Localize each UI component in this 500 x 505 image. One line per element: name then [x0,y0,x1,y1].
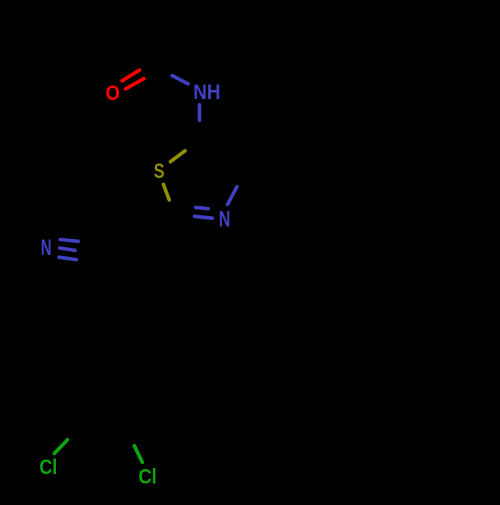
bond C-Cl right (Cl half, green) [134,446,142,463]
bond S-C5 thiazole (S half, olive) [171,151,186,162]
bond C-N amide (N half, blue) [172,76,188,84]
bond C=O double bond upper line (O half, red) [122,70,139,81]
bond C=O double bond main line (O half, red) [126,79,144,89]
svg-text:NH: NH [193,81,220,104]
bond N-C5 thiazole (N half, blue) [198,105,202,120]
bond S-C2 thiazole (S half, olive) [163,184,169,200]
svg-text:O: O [106,81,120,105]
svg-text:N: N [219,206,231,231]
bond C2=N3 thiazole inner double line (N half, blue) [196,207,208,208]
svg-text:S: S [154,159,165,183]
svg-text:Cl: Cl [139,464,157,489]
svg-text:N: N [41,235,52,260]
bond C#N nitrile top line (N half, blue) [60,240,78,242]
bond C#N nitrile middle line (N half, blue) [60,248,75,250]
svg-text:Cl: Cl [39,454,57,479]
bond C#N nitrile bottom line (N half, blue) [59,257,76,259]
bond C2=N3 thiazole main line (N half, blue) [195,216,213,218]
bond N3-C4 thiazole (N half, blue) [228,187,237,205]
bond C-Cl left (Cl half, green) [54,440,67,454]
